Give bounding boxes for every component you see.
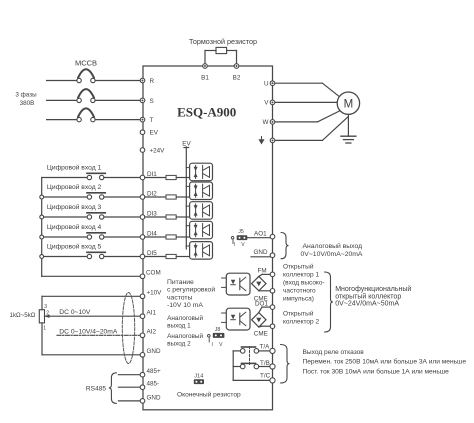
switch digital input 2 (42, 193, 141, 199)
terminal T/C (270, 378, 275, 383)
svg-text:DI2: DI2 (147, 190, 157, 197)
optocoupler DI5 (186, 242, 212, 260)
svg-text:Цифровой вход 4: Цифровой вход 4 (47, 223, 102, 231)
terminal DO1 (270, 305, 275, 310)
label T/B (260, 360, 270, 367)
svg-text:I: I (212, 342, 213, 348)
wire DI2 to optocoupler (188, 196, 190, 198)
terminal W (270, 120, 275, 125)
svg-text:Питание: Питание (167, 279, 194, 286)
label 1kΩ–5kΩ (10, 312, 36, 319)
terminal FM (270, 272, 275, 277)
brace multifunction collector (325, 272, 334, 332)
wire diamond to DO1 (259, 307, 270, 313)
note Аналоговый выход 0V~10V (301, 242, 363, 258)
switch digital input 5 (42, 252, 141, 258)
terminal DI3 (140, 215, 145, 220)
terminal AI1 (140, 314, 145, 319)
wire pot wiper to AI1 (45, 315, 141, 318)
svg-text:1kΩ~5kΩ: 1kΩ~5kΩ (10, 312, 36, 319)
label V (264, 100, 269, 107)
brace analog output (281, 233, 289, 259)
label DI3 (147, 210, 157, 217)
svg-text:0V~24V/0mA~50mA: 0V~24V/0mA~50mA (335, 301, 399, 308)
svg-text:AI1: AI1 (147, 310, 157, 317)
svg-text:Тормозной резистор: Тормозной резистор (189, 37, 257, 46)
wire diamond to FM (259, 274, 270, 276)
terminal AI2 (140, 333, 145, 338)
svg-text:J14: J14 (194, 374, 203, 380)
svg-text:485+: 485+ (147, 368, 162, 375)
svg-text:COM: COM (146, 270, 161, 277)
optocoupler DI3 (186, 202, 212, 220)
terminal V (270, 100, 275, 105)
svg-text:-10V 10 mA: -10V 10 mA (167, 302, 203, 309)
terminal CME2 (270, 324, 275, 329)
svg-text:AO1: AO1 (254, 230, 267, 237)
svg-text:Открытый: Открытый (283, 262, 314, 270)
note Аналоговый выход 2 (167, 332, 203, 348)
svg-text:1: 1 (43, 325, 46, 331)
label Цифровой вход 2 (47, 183, 102, 191)
label EV (150, 130, 159, 137)
svg-text:открытый коллектор: открытый коллектор (335, 292, 401, 300)
svg-text:FM: FM (258, 267, 267, 274)
optocoupler DI4 (186, 221, 212, 239)
optocoupler output FM (222, 273, 250, 295)
optocoupler DI2 (186, 182, 212, 200)
optocoupler DI1 (186, 163, 212, 181)
label DI5 (147, 250, 157, 257)
svg-text:DI4: DI4 (147, 230, 157, 237)
resistor input DI3 (145, 215, 190, 219)
label AI1 (147, 310, 157, 317)
label J14 (194, 374, 203, 380)
label 485+ (147, 368, 162, 375)
label GND3 (254, 249, 268, 256)
wire GND stub (251, 256, 270, 258)
jumper J14 (194, 379, 204, 384)
junction bus DI4 (40, 235, 44, 239)
label J8 (215, 327, 221, 333)
label J5 positions I V (234, 242, 245, 248)
wire +10V to pot pin3 (42, 296, 140, 309)
svg-text:Аналоговый выход: Аналоговый выход (303, 242, 363, 250)
note Многофункциональный (335, 285, 411, 308)
svg-text:DI1: DI1 (147, 171, 157, 178)
svg-text:+24V: +24V (150, 147, 166, 154)
switch digital input 1 (42, 173, 141, 179)
wire pot pin1 to GND (42, 323, 140, 355)
wire DI3 to optocoupler (188, 216, 190, 218)
label J5 (238, 229, 244, 235)
terminal PE (270, 138, 275, 143)
label EV internal (182, 140, 191, 147)
svg-text:GND: GND (147, 394, 161, 401)
terminal EV (140, 130, 145, 135)
svg-text:DI3: DI3 (147, 210, 157, 217)
svg-text:B1: B1 (201, 75, 209, 82)
svg-text:с регулировкой: с регулировкой (167, 286, 215, 294)
svg-text:выход 2: выход 2 (167, 341, 191, 348)
label 485- (147, 381, 160, 388)
svg-text:3 фазы: 3 фазы (15, 92, 37, 99)
terminal 485+ (140, 372, 145, 377)
label AO1 (254, 230, 267, 237)
wire phase R input (47, 80, 77, 82)
svg-text:RS485: RS485 (86, 386, 106, 393)
label GND2 (147, 394, 161, 401)
wire T to terminal (95, 119, 140, 121)
svg-text:M: M (344, 98, 354, 110)
label T/C (260, 372, 271, 379)
note Питание с регулировкой частоты (167, 279, 215, 309)
wire V to motor (275, 101, 337, 103)
junction bus DI2 (40, 195, 44, 199)
label Цифровой вход 4 (47, 223, 102, 231)
label PE arrow (259, 137, 263, 144)
svg-text:Оконечный резистор: Оконечный резистор (177, 391, 241, 399)
wire U to motor (275, 83, 339, 96)
terminal DI5 (140, 254, 145, 259)
svg-text:DO1: DO1 (255, 301, 268, 308)
terminal DI2 (140, 195, 145, 200)
svg-text:0V~10V/0mA~20mA: 0V~10V/0mA~20mA (301, 251, 363, 258)
junction bus DI5 (40, 255, 44, 259)
brace relay output (281, 345, 290, 384)
label +10V (147, 290, 163, 297)
switch digital input 4 (42, 233, 141, 239)
note Открытый коллектор 2 (283, 310, 319, 326)
terminal 485- (140, 385, 145, 390)
svg-text:J5: J5 (238, 229, 244, 235)
svg-text:CME: CME (254, 331, 268, 338)
label FM (258, 267, 267, 274)
svg-text:T/B: T/B (260, 360, 270, 367)
svg-text:частотного: частотного (283, 287, 316, 294)
wire DI4 to optocoupler (188, 236, 190, 238)
inverter block ESQ-A900 outline (143, 66, 273, 410)
label DI1 (147, 171, 157, 178)
svg-text:Аналоговый: Аналоговый (167, 314, 203, 322)
wire diamond to CME (259, 290, 270, 292)
wire W to motor (275, 111, 340, 122)
svg-text:+10V: +10V (147, 290, 163, 297)
wire J5 to AO1 (247, 237, 270, 239)
svg-text:импульса): импульса) (283, 295, 314, 302)
terminal R (140, 78, 145, 83)
svg-text:DI5: DI5 (147, 250, 157, 257)
ground motor (341, 114, 356, 143)
label brake resistor (Тормозной резистор) (189, 37, 257, 46)
junction bus DI3 (40, 215, 44, 219)
svg-text:T: T (150, 117, 154, 124)
svg-text:MCCB: MCCB (75, 59, 97, 68)
wire DI5 to optocoupler (188, 256, 190, 258)
wire B1 to resistor (205, 51, 216, 66)
note Аналоговый выход 1 (167, 314, 203, 330)
wire relay common to T/C (233, 351, 270, 381)
svg-text:ESQ-A900: ESQ-A900 (177, 105, 236, 120)
label AI2 (147, 329, 157, 336)
svg-text:Перемен. ток 250В 10мА или бол: Перемен. ток 250В 10мА или больше 3А или… (303, 357, 467, 365)
jumper J5 (231, 235, 247, 243)
resistor input DI4 (145, 235, 190, 239)
svg-text:J8: J8 (215, 327, 221, 333)
terminal CME (270, 289, 275, 294)
resistor input DI1 (145, 175, 190, 179)
label T/A (260, 344, 271, 351)
label DO1 (255, 301, 268, 308)
switch digital input 3 (42, 213, 141, 219)
motor M (337, 92, 359, 114)
svg-text:Аналоговый: Аналоговый (167, 332, 203, 340)
svg-text:коллектор 1: коллектор 1 (283, 271, 319, 278)
brace RS485 (109, 373, 117, 404)
label B2 (233, 75, 241, 82)
label Цифровой вход 1 (47, 164, 102, 172)
label DI4 (147, 230, 157, 237)
svg-text:частоты: частоты (167, 294, 193, 301)
terminal GND (140, 353, 145, 358)
svg-text:3: 3 (44, 304, 47, 310)
svg-text:R: R (150, 78, 155, 85)
label J8 positions I V (212, 342, 224, 348)
terminal +10V (140, 294, 145, 299)
label 3 фазы 380В (15, 92, 37, 108)
svg-text:Многофункциональный: Многофункциональный (335, 285, 411, 293)
svg-text:U: U (264, 81, 269, 88)
potentiometer RP1 (39, 310, 44, 323)
jumper J8 (208, 333, 225, 342)
breaker MCCB pole S (77, 89, 95, 102)
terminal COM (140, 274, 145, 279)
label B1 (201, 75, 209, 82)
svg-text:Цифровой вход 3: Цифровой вход 3 (47, 203, 102, 211)
svg-text:DC 0~10V/4~20mA: DC 0~10V/4~20mA (59, 328, 118, 335)
label U (264, 81, 269, 88)
breaker MCCB pole T (77, 108, 95, 121)
svg-text:GND: GND (254, 249, 268, 256)
svg-text:T/A: T/A (260, 344, 271, 351)
svg-text:(вход высоко-: (вход высоко- (283, 279, 325, 286)
shield ellipse analog cable (122, 293, 134, 364)
wire diamond to CME2 (259, 325, 270, 328)
label COM (146, 270, 161, 277)
wire GND2 (118, 400, 140, 402)
svg-text:Выход реле отказов: Выход реле отказов (303, 349, 365, 356)
terminal T/A (270, 348, 275, 353)
terminal B1 (203, 64, 208, 69)
label +24V (150, 147, 166, 154)
wire EV rail (184, 147, 189, 249)
wire phase T input (47, 119, 77, 121)
resistor brake (216, 47, 227, 53)
svg-text:S: S (150, 98, 154, 105)
svg-text:EV: EV (150, 130, 159, 137)
svg-text:380В: 380В (20, 100, 35, 107)
svg-text:AI2: AI2 (147, 329, 157, 336)
terminal +24V (140, 148, 145, 153)
label DI2 (147, 190, 157, 197)
diode bridge FM (252, 276, 266, 290)
wire 485+ (118, 374, 140, 376)
label pot pin 3 (44, 304, 47, 310)
label T (150, 117, 154, 124)
svg-text:выход 1: выход 1 (167, 323, 191, 330)
label DC 0~10V/4~20mA (59, 328, 118, 335)
terminal S (140, 98, 145, 103)
svg-text:коллектор 2: коллектор 2 (283, 319, 319, 326)
svg-text:GND: GND (147, 348, 161, 355)
wire S to terminal (95, 99, 140, 101)
svg-text:Пост. ток 30В 10мА или больше: Пост. ток 30В 10мА или больше 1А или мен… (303, 367, 450, 375)
wire 485- (118, 386, 140, 388)
svg-text:T/C: T/C (260, 372, 271, 379)
relay coupling dashed (249, 347, 251, 365)
label Цифровой вход 5 (47, 243, 102, 251)
terminal T/B (270, 364, 275, 369)
label R (150, 78, 155, 85)
label Оконечный резистор (177, 391, 241, 399)
wire digital input common bus (41, 178, 43, 277)
svg-text:EV: EV (182, 140, 191, 147)
wire DI1 to optocoupler (188, 177, 190, 179)
svg-text:W: W (263, 119, 269, 126)
resistor input DI5 (145, 254, 190, 258)
terminal GND2 (140, 399, 145, 404)
terminal T (140, 117, 145, 122)
wire PE to motor ground (275, 117, 348, 141)
wire B2 to resistor (227, 51, 237, 66)
label pot pin 2 (46, 310, 49, 316)
label CME (254, 295, 268, 302)
svg-text:B2: B2 (233, 75, 241, 82)
diode bridge DO1 (252, 313, 266, 327)
relay contact T/A (233, 347, 270, 353)
svg-text:Цифровой вход 5: Цифровой вход 5 (47, 243, 102, 251)
svg-text:Цифровой вход 1: Цифровой вход 1 (47, 164, 102, 172)
label DC 0~10V (59, 309, 91, 316)
terminal GND3 (270, 253, 275, 258)
label ESQ-A900 (177, 105, 236, 120)
terminal AO1 (270, 234, 275, 239)
terminal DI4 (140, 235, 145, 240)
label W (263, 119, 269, 126)
wire R to terminal (95, 80, 140, 82)
note Выход реле отказов (303, 349, 467, 376)
resistor input DI2 (145, 195, 190, 199)
label S (150, 98, 154, 105)
svg-text:Цифровой вход 2: Цифровой вход 2 (47, 183, 102, 191)
label Цифровой вход 3 (47, 203, 102, 211)
label pot pin 1 (43, 325, 46, 331)
breaker MCCB pole R (77, 69, 95, 82)
svg-text:Открытый: Открытый (283, 310, 314, 318)
svg-text:485-: 485- (147, 381, 160, 388)
terminal B2 (234, 64, 239, 69)
wire phase S input (47, 99, 77, 101)
note Открытый коллектор 1 (283, 262, 325, 302)
optocoupler output DO1 (222, 308, 250, 330)
svg-text:DC 0~10V: DC 0~10V (59, 309, 91, 316)
label RS485 (86, 386, 106, 393)
terminal U (270, 81, 275, 86)
wire COM from bus (42, 275, 141, 277)
svg-text:I: I (234, 242, 235, 248)
label GND (147, 348, 161, 355)
relay contact T/B (233, 363, 270, 368)
label CME2 (254, 331, 268, 338)
terminal DI1 (140, 175, 145, 180)
label MCCB (75, 59, 97, 68)
wire AI2 alt input (dash-dot) (57, 334, 140, 336)
